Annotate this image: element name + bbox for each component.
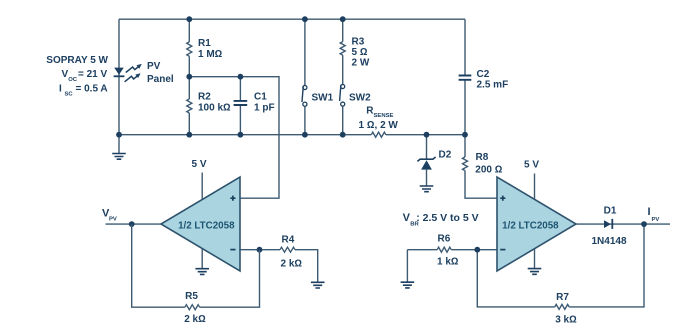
op-amp U1 1/2 LTC2058 — [161, 177, 240, 271]
svg-text:1/2 LTC2058: 1/2 LTC2058 — [502, 221, 559, 232]
node: U1 - input junction — [257, 247, 263, 253]
svg-text:SOPRAY 5 W: SOPRAY 5 W — [46, 55, 108, 66]
wire: bottom rail (left of Rsense) — [119, 134, 371, 136]
svg-text:= 0.5 A: = 0.5 A — [76, 84, 108, 95]
svg-text:OC: OC — [68, 77, 78, 83]
wire: U1 - input to node — [240, 249, 260, 251]
wire: PV panel left branch — [118, 19, 120, 135]
op-amp U2 1/2 LTC2058 — [497, 177, 576, 271]
svg-text:D2: D2 — [439, 150, 452, 161]
node: bottom rail C2/R8 — [462, 132, 468, 138]
PV light arrow 2 — [125, 73, 141, 82]
svg-text:100 kΩ: 100 kΩ — [198, 103, 231, 114]
ground: PV panel — [112, 135, 126, 160]
svg-text:SW1: SW1 — [312, 92, 334, 103]
node: top rail SW1 — [302, 16, 308, 22]
resistor R5 (feedback) with wire loop — [132, 224, 185, 307]
wire: U1 V- pin stub — [201, 247, 203, 269]
svg-text:= 21 V: = 21 V — [78, 69, 108, 80]
svg-text:R4: R4 — [282, 235, 295, 246]
svg-text:R5: R5 — [185, 291, 198, 302]
node: bottom rail C1 — [238, 132, 244, 138]
node: bottom rail R2 — [186, 132, 192, 138]
svg-text:5 V: 5 V — [192, 159, 207, 170]
node: bottom rail SW2 — [340, 132, 346, 138]
wire: R6 to U2 - input — [451, 249, 497, 251]
ground: D2 — [420, 186, 434, 192]
svg-text:5 V: 5 V — [524, 159, 539, 170]
svg-text:C2: C2 — [477, 69, 490, 80]
resistor R6 — [407, 249, 437, 251]
svg-text:I: I — [648, 206, 651, 218]
svg-text:SENSE: SENSE — [374, 113, 394, 119]
wire: Vpv lead to U1 output — [106, 223, 162, 225]
svg-text:5 Ω: 5 Ω — [352, 47, 368, 58]
label: Ipv — [648, 206, 660, 223]
resistor R1 — [188, 19, 190, 42]
svg-text:SC: SC — [65, 91, 74, 97]
svg-text:R2: R2 — [198, 92, 211, 103]
svg-text:1 kΩ: 1 kΩ — [437, 257, 459, 268]
node: Vpv / feedback junction — [129, 221, 135, 227]
node: bottom rail PV — [116, 132, 122, 138]
wire: top rail — [119, 18, 465, 20]
node: bottom rail D2 — [424, 132, 430, 138]
svg-text:200 Ω: 200 Ω — [475, 165, 502, 176]
zener diode D2 — [417, 135, 435, 186]
wire: 5V supply to op-amp U1 — [201, 173, 203, 201]
svg-text:SW2: SW2 — [349, 92, 371, 103]
svg-text:Panel: Panel — [147, 74, 174, 85]
svg-text:1/2 LTC2058: 1/2 LTC2058 — [178, 221, 235, 232]
resistor R8 — [464, 135, 466, 157]
svg-text:PV: PV — [109, 217, 117, 223]
svg-text:2 kΩ: 2 kΩ — [281, 259, 303, 270]
node: junction C1 top — [238, 74, 244, 80]
svg-text:1N4148: 1N4148 — [591, 236, 626, 247]
label: Rsense 1 Ohm, 2 W — [359, 106, 399, 132]
ground: U1 — [195, 269, 209, 275]
resistor R2 — [188, 77, 190, 99]
svg-text:2 W: 2 W — [352, 58, 370, 69]
label: Vpv — [102, 208, 117, 223]
svg-text:C1: C1 — [254, 92, 267, 103]
svg-text:2 kΩ: 2 kΩ — [184, 314, 206, 325]
svg-text:R1: R1 — [198, 38, 211, 49]
svg-text:R6: R6 — [438, 234, 451, 245]
wire: 5V supply to op-amp U2 — [534, 174, 536, 201]
node: top rail R1 — [186, 16, 192, 22]
wire: U2 V- pin stub — [534, 247, 536, 269]
svg-text:PV: PV — [147, 61, 161, 72]
svg-text:: 2.5 V to 5 V: : 2.5 V to 5 V — [416, 212, 478, 224]
svg-text:I: I — [59, 84, 62, 95]
node: Ipv junction — [641, 221, 647, 227]
svg-text:1 Ω, 2 W: 1 Ω, 2 W — [359, 120, 399, 131]
resistor R4 — [260, 249, 281, 251]
diode D1 — [604, 219, 612, 229]
resistor R3 — [342, 19, 344, 41]
svg-text:R8: R8 — [476, 152, 489, 163]
solar cell diode (PV panel symbol) — [114, 68, 125, 77]
svg-text:3 kΩ: 3 kΩ — [555, 315, 577, 326]
svg-text:2.5 mF: 2.5 mF — [477, 80, 509, 91]
capacitor C2 — [459, 19, 472, 135]
svg-text:1 pF: 1 pF — [254, 103, 275, 114]
resistor Rsense 1 Ohm 2 W (in line) — [371, 132, 386, 137]
label: SOPRAY 5 W, Voc, Isc — [46, 55, 108, 97]
node: junction R1/R2 — [186, 74, 192, 80]
svg-text:R3: R3 — [352, 37, 365, 48]
switch SW1 — [302, 19, 307, 135]
wire: R8 to op-amp U2 + input — [465, 171, 497, 199]
node: top rail R3/SW2 — [340, 16, 346, 22]
svg-text:D1: D1 — [604, 206, 617, 217]
wire: bottom rail (right of Rsense) — [386, 134, 465, 136]
ground: R6 — [406, 250, 408, 283]
PV light arrow 1 — [126, 64, 142, 73]
node: U2 - input junction — [474, 247, 480, 253]
wire: R1/R2 junction to C1 and crossover to op-amp U1 + input — [189, 77, 279, 199]
resistor R7 (feedback) with wire loop — [477, 250, 555, 307]
label: Vbr 2.5 V to 5 V — [403, 212, 479, 228]
wire: U2 output to D1 and Ipv — [576, 223, 670, 225]
switch SW2 — [340, 84, 345, 134]
svg-text:PV: PV — [652, 217, 660, 223]
ground: U2 — [528, 269, 542, 275]
ground: R4 — [311, 282, 325, 288]
node: bottom rail SW1 — [302, 132, 308, 138]
svg-text:R7: R7 — [556, 292, 569, 303]
capacitor C1 — [234, 77, 248, 135]
svg-text:1 MΩ: 1 MΩ — [198, 49, 223, 60]
